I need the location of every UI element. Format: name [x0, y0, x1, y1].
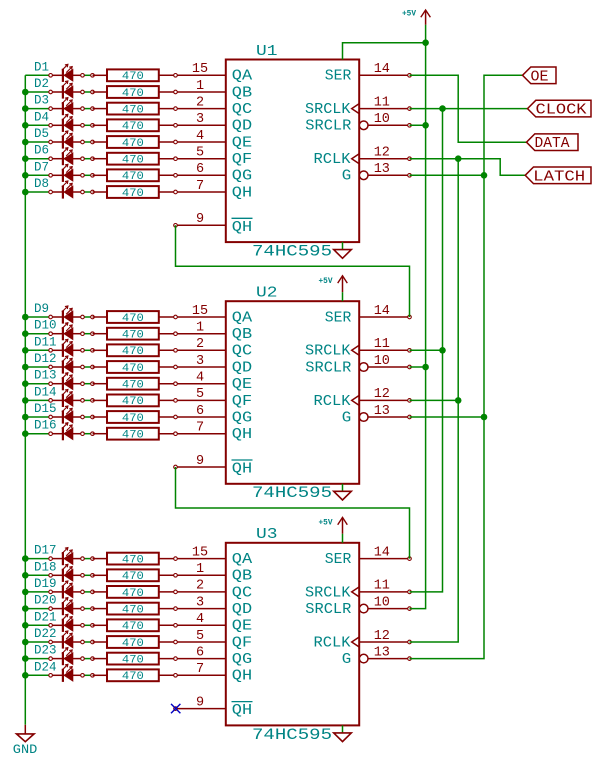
pin circles and wire D4 anode to R4 [83, 124, 93, 126]
U3 pin 9 QH-bar [176, 695, 253, 719]
svg-text:D10: D10 [34, 319, 57, 333]
svg-text:QC: QC [232, 584, 252, 601]
svg-text:+5V: +5V [319, 519, 333, 528]
resistor R23 right lead + chip pin stub [159, 658, 226, 660]
wire U2 QH-bar to U3 SER [176, 467, 410, 559]
svg-text:D21: D21 [34, 610, 57, 624]
svg-text:5: 5 [196, 387, 204, 402]
junction on GND rail at D16 [22, 430, 29, 437]
svg-text:6: 6 [196, 162, 204, 177]
svg-text:470: 470 [122, 571, 144, 583]
wire GND rail to D6 cathode [25, 158, 49, 160]
svg-text:1: 1 [196, 79, 204, 94]
svg-text:D1: D1 [34, 60, 49, 74]
wire GND rail to D21 cathode [25, 624, 49, 626]
LED D17 [52, 548, 81, 566]
LED D12 [52, 356, 81, 374]
U1 pin 3 QD [196, 112, 252, 135]
U3 pin 10 SRCLR [305, 595, 409, 618]
svg-text:3: 3 [196, 354, 204, 369]
svg-text:2: 2 [196, 95, 204, 110]
svg-text:G: G [342, 651, 352, 668]
pin circles and wire D8 anode to R8 [83, 191, 93, 193]
svg-text:470: 470 [122, 138, 144, 150]
resistor R13 470 [93, 378, 159, 390]
svg-text:QF: QF [232, 151, 252, 168]
svg-text:9: 9 [196, 695, 204, 710]
svg-text:13: 13 [374, 645, 390, 660]
svg-text:QH: QH [232, 426, 252, 443]
pin circles and wire D14 anode to R14 [83, 399, 93, 401]
junction on GND rail at D21 [22, 622, 29, 629]
svg-text:11: 11 [374, 337, 390, 352]
wire GND rail to D24 cathode [25, 674, 49, 676]
svg-text:470: 470 [122, 71, 144, 83]
svg-text:D5: D5 [34, 127, 49, 141]
U1 pin 2 QC [196, 95, 252, 118]
wire GND rail to D13 cathode [25, 383, 49, 385]
U2 pin 11 SRCLK [305, 337, 410, 360]
wire CLOCK net U1 SRCLK to label [410, 108, 528, 110]
svg-text:QB: QB [232, 326, 252, 343]
pin circles and wire D5 anode to R5 [83, 141, 93, 143]
svg-text:QB: QB [232, 84, 252, 101]
U1 pin 1 QB [196, 79, 252, 102]
svg-text:4: 4 [196, 371, 204, 386]
svg-text:470: 470 [122, 588, 144, 600]
svg-text:SRCLK: SRCLK [305, 584, 351, 601]
U3 pin 5 QF [196, 629, 252, 652]
wire U1 G to OE [410, 174, 485, 176]
svg-text:CLOCK: CLOCK [536, 103, 587, 119]
svg-text:470: 470 [122, 396, 144, 408]
svg-text:SRCLR: SRCLR [305, 601, 351, 618]
LED D9 [52, 306, 81, 324]
svg-text:QE: QE [232, 376, 252, 393]
svg-text:QF: QF [232, 634, 252, 651]
resistor R17 right lead + chip pin stub [159, 558, 226, 560]
junction on GND rail at D5 [22, 139, 29, 146]
pin circles and wire D3 anode to R3 [83, 108, 93, 110]
svg-text:2: 2 [196, 337, 204, 352]
svg-text:G: G [342, 168, 352, 185]
svg-text:U2: U2 [256, 285, 278, 302]
resistor R9 right lead + chip pin stub [159, 316, 226, 318]
wire GND rail to D8 cathode [25, 191, 49, 193]
junction on GND rail at D17 [22, 555, 29, 562]
svg-text:D17: D17 [34, 544, 57, 558]
svg-text:QH: QH [232, 461, 252, 478]
svg-text:4: 4 [196, 612, 204, 627]
resistor R10 right lead + chip pin stub [159, 333, 226, 335]
svg-text:OE: OE [531, 69, 549, 85]
junction on GND rail at D4 [22, 122, 29, 129]
wire U1 QH-bar to U2 SER [176, 225, 410, 317]
junction on GND rail at D23 [22, 655, 29, 662]
LED D14 [52, 389, 81, 407]
resistor R5 470 [93, 136, 159, 148]
wire GND rail to D10 cathode [25, 333, 49, 335]
svg-text:QD: QD [232, 359, 252, 376]
svg-text:D6: D6 [34, 144, 49, 158]
svg-text:470: 470 [122, 121, 144, 133]
svg-text:D13: D13 [34, 369, 57, 383]
resistor R8 right lead + chip pin stub [159, 191, 226, 193]
resistor R10 470 [93, 328, 159, 340]
U3 pin 7 QH [196, 662, 252, 685]
junction OE U1 [481, 172, 488, 179]
svg-text:QC: QC [232, 343, 252, 360]
junction CLOCK U2 [439, 347, 446, 354]
svg-text:QG: QG [232, 409, 252, 426]
svg-text:470: 470 [122, 155, 144, 167]
svg-text:D20: D20 [34, 594, 57, 608]
U2 pin 5 QF [196, 387, 252, 410]
pin circles and wire D9 anode to R9 [83, 316, 93, 318]
pin circles and wire D13 anode to R13 [83, 383, 93, 385]
LED D8 [52, 181, 81, 199]
wire GND rail to D14 cathode [25, 399, 49, 401]
svg-text:QF: QF [232, 393, 252, 410]
svg-text:+5V: +5V [319, 277, 333, 286]
resistor R16 right lead + chip pin stub [159, 433, 226, 435]
junction on GND rail at D6 [22, 155, 29, 162]
svg-text:470: 470 [122, 346, 144, 358]
resistor R18 470 [93, 569, 159, 581]
resistor R11 470 [93, 344, 159, 356]
U2 pin 9 QH-bar [176, 454, 253, 478]
svg-text:D23: D23 [34, 644, 57, 658]
LED D6 [52, 148, 81, 166]
svg-text:7: 7 [196, 179, 204, 194]
svg-text:470: 470 [122, 88, 144, 100]
svg-text:D4: D4 [34, 110, 49, 124]
pin circles and wire D7 anode to R7 [83, 174, 93, 176]
svg-text:G: G [342, 409, 352, 426]
svg-text:470: 470 [122, 430, 144, 442]
global label CLOCK [528, 100, 592, 118]
U1 pin 12 RCLK [314, 146, 410, 169]
svg-text:74HC595: 74HC595 [252, 726, 332, 744]
resistor R17 470 [93, 553, 159, 565]
U2 pin 4 QE [196, 371, 252, 394]
LED D7 [52, 164, 81, 182]
svg-text:D16: D16 [34, 419, 57, 433]
resistor R20 470 [93, 603, 159, 615]
resistor R21 right lead + chip pin stub [159, 624, 226, 626]
U3 pin 1 QB [196, 562, 252, 585]
pin circles and wire D18 anode to R18 [83, 574, 93, 576]
LED D22 [52, 631, 81, 649]
wire GND rail to D5 cathode [25, 141, 49, 143]
U3 pin 14 SER [325, 545, 410, 568]
svg-text:QH: QH [232, 184, 252, 201]
svg-text:470: 470 [122, 605, 144, 617]
wire GND rail to D12 cathode [25, 366, 49, 368]
junction on GND rail at D12 [22, 364, 29, 371]
svg-text:470: 470 [122, 555, 144, 567]
svg-text:15: 15 [192, 62, 208, 77]
svg-text:11: 11 [374, 95, 390, 110]
wire GND rail to D11 cathode [25, 349, 49, 351]
junction on GND rail at D24 [22, 672, 29, 679]
svg-text:14: 14 [374, 304, 390, 319]
resistor R23 470 [93, 653, 159, 665]
svg-text:74HC595: 74HC595 [252, 484, 332, 502]
svg-text:4: 4 [196, 129, 204, 144]
svg-text:3: 3 [196, 112, 204, 127]
svg-text:6: 6 [196, 645, 204, 660]
U1 pin 9 QH-bar [176, 212, 253, 236]
svg-text:U1: U1 [256, 43, 278, 60]
resistor R20 right lead + chip pin stub [159, 608, 226, 610]
wire GND rail to D2 cathode [25, 91, 49, 93]
svg-text:D19: D19 [34, 577, 57, 591]
IC U2 74HC595 body [226, 301, 359, 484]
resistor R3 right lead + chip pin stub [159, 108, 226, 110]
resistor R14 470 [93, 395, 159, 407]
wire U2 G to OE [410, 416, 485, 418]
junction on GND rail at D9 [22, 314, 29, 321]
resistor R16 470 [93, 428, 159, 440]
wire DATA net U1 SER to label [410, 75, 527, 142]
svg-text:QH: QH [232, 219, 252, 236]
svg-text:10: 10 [374, 595, 390, 610]
pin circles and wire D16 anode to R16 [83, 433, 93, 435]
ground GND power symbol [17, 725, 35, 742]
svg-text:470: 470 [122, 655, 144, 667]
resistor R22 right lead + chip pin stub [159, 641, 226, 643]
svg-text:12: 12 [374, 146, 390, 161]
wire GND rail to D20 cathode [25, 608, 49, 610]
resistor R19 470 [93, 586, 159, 598]
LED D15 [52, 406, 81, 424]
svg-text:D18: D18 [34, 560, 57, 574]
resistor R4 470 [93, 119, 159, 131]
resistor R1 470 [93, 69, 159, 81]
U2 pin 13 G [342, 404, 410, 427]
pin circles and wire D21 anode to R21 [83, 624, 93, 626]
U1 pin 7 QH [196, 179, 252, 202]
svg-text:D12: D12 [34, 352, 57, 366]
ground symbol under U1 [334, 242, 352, 258]
wire GND rail to D4 cathode [25, 124, 49, 126]
wire GND rail to D15 cathode [25, 416, 49, 418]
svg-text:QA: QA [232, 551, 252, 568]
global label OE [523, 67, 557, 85]
svg-text:470: 470 [122, 188, 144, 200]
U2 pin 14 SER [325, 304, 410, 327]
resistor R1 right lead + chip pin stub [159, 74, 226, 76]
svg-text:D8: D8 [34, 177, 49, 191]
svg-text:D22: D22 [34, 627, 57, 641]
svg-text:470: 470 [122, 638, 144, 650]
svg-text:SRCLK: SRCLK [305, 343, 351, 360]
svg-text:D2: D2 [34, 77, 49, 91]
resistor R6 470 [93, 153, 159, 165]
svg-text:SRCLR: SRCLR [305, 359, 351, 376]
resistor R8 470 [93, 186, 159, 198]
wire GND rail to D16 cathode [25, 433, 49, 435]
junction on GND rail at D7 [22, 172, 29, 179]
svg-text:LATCH: LATCH [533, 169, 585, 185]
resistor R18 right lead + chip pin stub [159, 574, 226, 576]
global label LATCH [525, 167, 591, 185]
svg-text:470: 470 [122, 413, 144, 425]
svg-text:15: 15 [192, 304, 208, 319]
wire U2 SRCLK to CLOCK [410, 349, 443, 351]
svg-text:DATA: DATA [535, 136, 570, 152]
svg-text:+5V: +5V [402, 9, 416, 18]
resistor R11 right lead + chip pin stub [159, 349, 226, 351]
junction on GND rail at D15 [22, 414, 29, 421]
resistor R15 right lead + chip pin stub [159, 416, 226, 418]
wire U2 RCLK to LATCH [410, 399, 459, 401]
wire GND rail to D1 cathode [25, 74, 49, 76]
U2 pin 12 RCLK [314, 387, 410, 410]
svg-text:12: 12 [374, 387, 390, 402]
+5V power symbol above U2 [338, 276, 348, 292]
no-connect X on U3 pin 9 [171, 704, 180, 713]
LED D5 [52, 131, 81, 149]
wire GND rail to D18 cathode [25, 574, 49, 576]
svg-text:SER: SER [325, 309, 352, 326]
resistor R19 right lead + chip pin stub [159, 591, 226, 593]
svg-text:470: 470 [122, 363, 144, 375]
U2 pin 6 QG [196, 404, 252, 427]
wire +5V to U3 VCC [342, 534, 344, 543]
junction OE U2 [481, 414, 488, 421]
LED D10 [52, 323, 81, 341]
svg-text:QD: QD [232, 118, 252, 135]
svg-text:11: 11 [374, 579, 390, 594]
svg-text:14: 14 [374, 62, 390, 77]
resistor R12 right lead + chip pin stub [159, 366, 226, 368]
LED D13 [52, 373, 81, 391]
svg-text:14: 14 [374, 545, 390, 560]
wire GND rail to D9 cathode [25, 316, 49, 318]
svg-text:D15: D15 [34, 402, 57, 416]
wire +5V vertical (SRCLR net) [410, 25, 426, 609]
U3 pin 13 G [342, 645, 410, 668]
svg-text:470: 470 [122, 621, 144, 633]
resistor R21 470 [93, 619, 159, 631]
U3 pin 2 QC [196, 579, 252, 602]
svg-text:12: 12 [374, 629, 390, 644]
U1 pin 4 QE [196, 129, 252, 152]
LED D21 [52, 614, 81, 632]
junction CLOCK U1 [439, 105, 446, 112]
wire GND rail to D17 cathode [25, 558, 49, 560]
U2 pin 3 QD [196, 354, 252, 377]
U3 pin 15 QA [192, 545, 252, 568]
svg-text:D9: D9 [34, 302, 49, 316]
pin circles and wire D17 anode to R17 [83, 558, 93, 560]
svg-text:QG: QG [232, 651, 252, 668]
wire GND rail to D19 cathode [25, 591, 49, 593]
svg-text:470: 470 [122, 380, 144, 392]
junction LATCH U2 [455, 397, 462, 404]
svg-text:3: 3 [196, 595, 204, 610]
wire GND rail to D22 cathode [25, 641, 49, 643]
svg-text:74HC595: 74HC595 [252, 243, 332, 261]
svg-text:5: 5 [196, 629, 204, 644]
LED D19 [52, 581, 81, 599]
LED D4 [52, 114, 81, 132]
U3 pin 4 QE [196, 612, 252, 635]
svg-text:RCLK: RCLK [314, 634, 351, 651]
resistor R22 470 [93, 636, 159, 648]
wire U1 SRCLR to +5V [410, 124, 426, 126]
wire U2 SRCLR to +5V [410, 366, 426, 368]
U2 pin 7 QH [196, 421, 252, 444]
pin circles and wire D20 anode to R20 [83, 608, 93, 610]
svg-text:5: 5 [196, 146, 204, 161]
svg-text:2: 2 [196, 579, 204, 594]
LED D18 [52, 564, 81, 582]
U2 pin 10 SRCLR [305, 354, 409, 377]
junction on GND rail at D8 [22, 189, 29, 196]
svg-text:QC: QC [232, 101, 252, 118]
svg-text:RCLK: RCLK [314, 393, 351, 410]
junction LATCH U1 [455, 155, 462, 162]
pin circles and wire D10 anode to R10 [83, 333, 93, 335]
junction on GND rail at D13 [22, 380, 29, 387]
resistor R2 470 [93, 86, 159, 98]
resistor R14 right lead + chip pin stub [159, 399, 226, 401]
svg-text:1: 1 [196, 562, 204, 577]
ground symbol under U3 [334, 725, 352, 741]
svg-text:470: 470 [122, 330, 144, 342]
svg-text:15: 15 [192, 545, 208, 560]
pin circles and wire D23 anode to R23 [83, 658, 93, 660]
+5V power symbol above U3 [338, 517, 348, 533]
ground symbol under U2 [334, 484, 352, 500]
junction on GND rail at D3 [22, 105, 29, 112]
U1 pin 14 SER [325, 62, 410, 85]
U1 pin 15 QA [192, 62, 252, 85]
junction on GND rail at D10 [22, 330, 29, 337]
svg-text:QG: QG [232, 168, 252, 185]
resistor R3 470 [93, 103, 159, 115]
junction on GND rail at D22 [22, 639, 29, 646]
resistor R2 right lead + chip pin stub [159, 91, 226, 93]
+5V power symbol top [421, 10, 431, 25]
junction on GND rail at D18 [22, 572, 29, 579]
resistor R24 470 [93, 669, 159, 681]
pin circles and wire D1 anode to R1 [83, 74, 93, 76]
U2 pin 2 QC [196, 337, 252, 360]
svg-text:470: 470 [122, 171, 144, 183]
resistor R12 470 [93, 361, 159, 373]
wire OE net label to vertical [410, 75, 523, 658]
U1 pin 10 SRCLR [305, 112, 409, 135]
pin circles and wire D19 anode to R19 [83, 591, 93, 593]
svg-text:1: 1 [196, 321, 204, 336]
svg-text:10: 10 [374, 112, 390, 127]
U1 pin 6 QG [196, 162, 252, 185]
svg-text:D3: D3 [34, 94, 49, 108]
svg-text:7: 7 [196, 421, 204, 436]
svg-text:QE: QE [232, 134, 252, 151]
svg-text:470: 470 [122, 313, 144, 325]
svg-text:QA: QA [232, 68, 252, 85]
svg-text:SRCLK: SRCLK [305, 101, 351, 118]
U3 pin 11 SRCLK [305, 579, 410, 602]
wire LATCH vertical [410, 159, 459, 642]
svg-text:QA: QA [232, 309, 252, 326]
svg-text:10: 10 [374, 354, 390, 369]
